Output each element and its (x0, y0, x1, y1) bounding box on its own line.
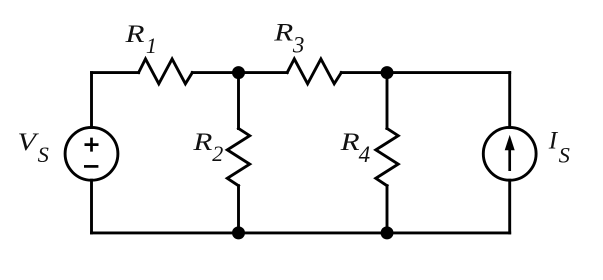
wire left vertical lower (90, 180, 93, 233)
node dot top-right (381, 66, 394, 79)
resistor R4 (376, 129, 398, 186)
node dot top-left (232, 66, 245, 79)
voltage source V_S circle (65, 127, 118, 180)
arrow head of I_S (505, 135, 515, 150)
plus sign of V_S (85, 138, 99, 152)
svg-text:R: R (124, 21, 144, 48)
wire left vertical upper (90, 73, 93, 128)
wire bottom (92, 231, 510, 234)
wire right vertical upper (508, 73, 511, 128)
wire right vertical lower (508, 180, 511, 233)
svg-text:1: 1 (146, 33, 157, 58)
current source I_S circle (483, 127, 536, 180)
wire top: middle segment (192, 71, 287, 74)
wire top: left segment (92, 71, 139, 74)
svg-text:S: S (559, 142, 570, 167)
node dot bottom-right (381, 226, 394, 239)
resistor R2 (227, 129, 249, 186)
resistor R1 (139, 59, 193, 84)
wire branch R4 lower (386, 186, 389, 233)
svg-text:R: R (273, 20, 293, 47)
wire top: right segment (341, 71, 509, 74)
wire branch R4 upper (386, 73, 389, 129)
wire branch R2 lower (237, 186, 240, 233)
svg-text:V: V (18, 129, 40, 156)
svg-text:3: 3 (292, 33, 305, 58)
svg-text:I: I (548, 128, 559, 155)
node dot bottom-left (232, 226, 245, 239)
svg-text:R: R (339, 129, 359, 156)
svg-text:R: R (192, 129, 212, 156)
wire branch R2 upper (237, 73, 240, 129)
arrow shaft of I_S (508, 144, 511, 171)
minus sign of V_S (84, 165, 98, 168)
svg-text:2: 2 (212, 141, 223, 166)
svg-text:4: 4 (359, 142, 371, 167)
svg-text:S: S (38, 142, 49, 167)
resistor R3 (287, 59, 341, 84)
